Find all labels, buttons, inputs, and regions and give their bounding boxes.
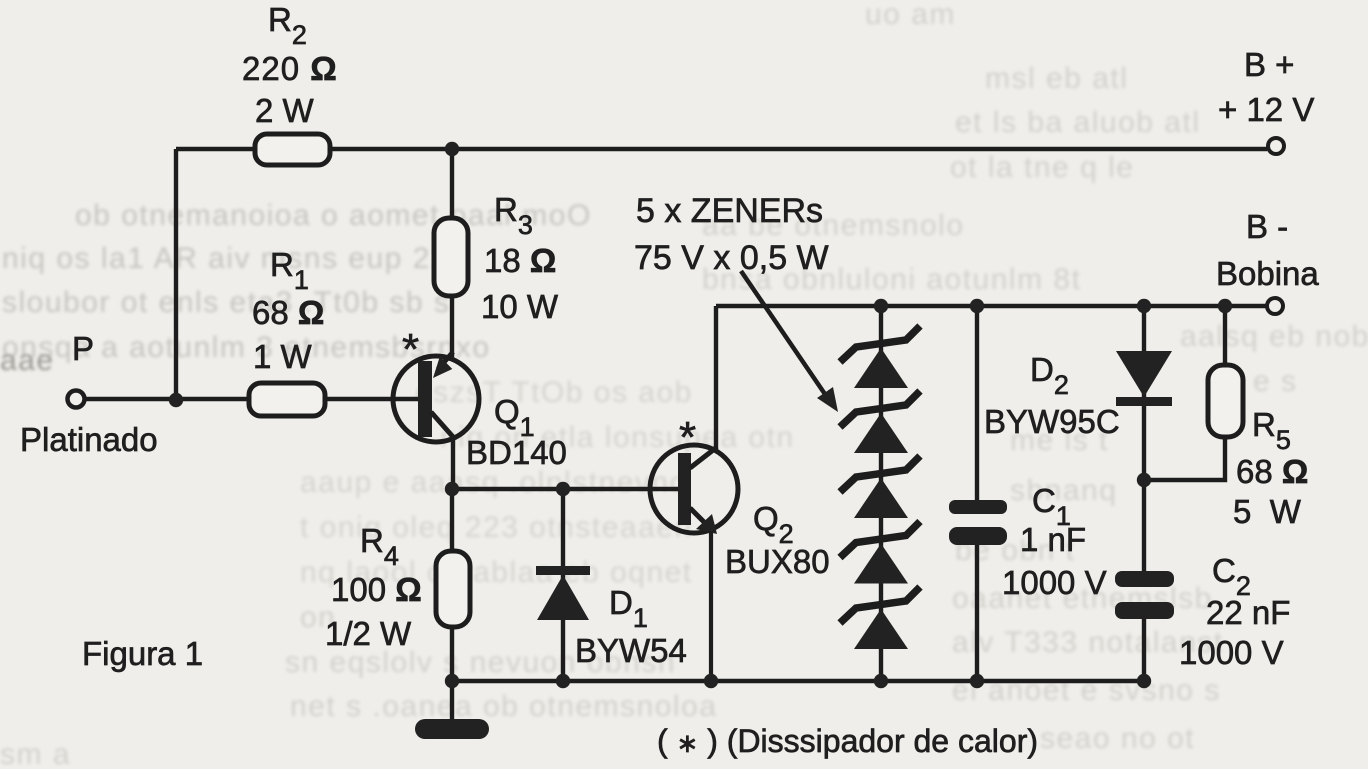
svg-text:aae: aae bbox=[0, 344, 55, 377]
zener pointer arrow bbox=[741, 271, 838, 412]
wire Q1 collector bbox=[451, 436, 455, 489]
junction D2-R5 node bbox=[1137, 473, 1151, 487]
resistor R3 bbox=[434, 218, 468, 296]
wire top (+12V rail) bbox=[176, 147, 1267, 151]
zener Z2 bbox=[840, 391, 920, 453]
svg-text:+ 12 V: + 12 V bbox=[1218, 91, 1314, 128]
capacitor C1 bbox=[949, 500, 1007, 545]
svg-text:net s .oanea ob otnemsnoloa: net s .oanea ob otnemsnoloa bbox=[290, 690, 717, 723]
terminal B+ bbox=[1268, 138, 1284, 154]
resistor R1 bbox=[249, 383, 325, 416]
svg-text:68 Ω: 68 Ω bbox=[252, 294, 324, 331]
junction D2 top node bbox=[1137, 299, 1151, 313]
diode D1 bbox=[536, 566, 590, 620]
svg-text:BYW54: BYW54 bbox=[575, 632, 687, 669]
svg-text:Figura 1: Figura 1 bbox=[82, 635, 203, 672]
svg-text:2 W: 2 W bbox=[255, 92, 315, 129]
svg-text:1000 V: 1000 V bbox=[1179, 634, 1284, 671]
junction R4 bottom node bbox=[445, 674, 459, 688]
junction zener bottom node bbox=[874, 674, 888, 688]
wire left vertical bbox=[174, 149, 178, 400]
wire C1 branch bbox=[975, 306, 979, 681]
transistor Q2 bbox=[650, 445, 738, 681]
wire D1 branch bbox=[561, 489, 565, 681]
svg-text:Platinado: Platinado bbox=[20, 421, 158, 458]
resistor R5 bbox=[1208, 365, 1243, 437]
svg-text:niq os la1 AR aiv msns eup 223: niq os la1 AR aiv msns eup 223 bbox=[2, 242, 467, 275]
zener Z3 bbox=[840, 456, 920, 518]
wire B- rail bbox=[716, 304, 1266, 308]
svg-text:Bobina: Bobina bbox=[1216, 255, 1319, 292]
svg-text:BD140: BD140 bbox=[466, 434, 567, 471]
svg-text:*: * bbox=[402, 325, 419, 374]
resistor R2 bbox=[255, 134, 330, 165]
wire Q2 collector riser bbox=[714, 306, 718, 449]
svg-text:220 Ω: 220 Ω bbox=[242, 50, 338, 87]
junction P node bbox=[169, 393, 183, 407]
svg-text:18 Ω: 18 Ω bbox=[484, 242, 556, 279]
junction Q1 collector node bbox=[445, 482, 459, 496]
svg-text:1000 V: 1000 V bbox=[1002, 564, 1107, 601]
svg-text:et ls ba aluob atl: et ls ba aluob atl bbox=[955, 106, 1200, 139]
wire P to Q1 base bbox=[86, 397, 420, 401]
svg-text:sm a: sm a bbox=[0, 738, 71, 769]
wire zener branch bbox=[879, 306, 883, 681]
zener Z4 bbox=[840, 522, 920, 584]
transistor Q1 bbox=[393, 352, 479, 442]
junction R5 top node bbox=[1218, 299, 1232, 313]
svg-text:msl eb atl: msl eb atl bbox=[985, 62, 1128, 95]
capacitor C2 bbox=[1115, 571, 1174, 619]
svg-text:BYW95C: BYW95C bbox=[984, 403, 1120, 440]
svg-text:aalsq eb nob: aalsq eb nob bbox=[1180, 320, 1368, 353]
wire R5 branch bbox=[1144, 306, 1225, 480]
svg-text:5 x ZENERs: 5 x ZENERs bbox=[636, 192, 823, 230]
diode D2 bbox=[1116, 351, 1172, 406]
svg-text:1 W: 1 W bbox=[253, 338, 313, 375]
junction D1 top node bbox=[556, 482, 570, 496]
wire R4 branch bbox=[450, 489, 454, 681]
svg-text:68 Ω: 68 Ω bbox=[1236, 453, 1308, 490]
resistor R4 bbox=[436, 551, 470, 627]
junction zener top node bbox=[874, 299, 888, 313]
terminal P bbox=[68, 391, 85, 408]
zener Z1 bbox=[840, 326, 920, 388]
svg-text:5 W: 5 W bbox=[1233, 493, 1302, 530]
svg-text:*: * bbox=[679, 413, 696, 462]
junction R2-R3 node bbox=[445, 142, 459, 156]
wire ground stub bbox=[450, 681, 454, 721]
junction C1 top node bbox=[970, 299, 984, 313]
junction Q2 emitter node bbox=[704, 674, 718, 688]
junction D1 bottom node bbox=[556, 674, 570, 688]
svg-text:e s: e s bbox=[1253, 365, 1298, 398]
svg-text:P: P bbox=[72, 330, 94, 367]
svg-text:100 Ω: 100 Ω bbox=[331, 571, 422, 608]
svg-text:eszsT TtOb os aob: eszsT TtOb os aob bbox=[415, 376, 693, 409]
svg-text:1/2 W: 1/2 W bbox=[325, 615, 412, 652]
svg-text:75 V x 0,5 W: 75 V x 0,5 W bbox=[634, 239, 829, 277]
svg-text:ot la tne q le: ot la tne q le bbox=[950, 151, 1134, 184]
wire mid node to Q2 base bbox=[452, 487, 679, 491]
junction C2 bottom node bbox=[1137, 674, 1151, 688]
svg-text:22 nF: 22 nF bbox=[1206, 594, 1290, 631]
wire bottom rail bbox=[452, 679, 1144, 683]
svg-text:( ∗ ) (Disssipador de calor): ( ∗ ) (Disssipador de calor) bbox=[657, 723, 1038, 759]
svg-text:B +: B + bbox=[1244, 46, 1294, 83]
svg-text:10 W: 10 W bbox=[481, 288, 559, 325]
svg-text:t oniq oleq 223 otnsteaaen: t oniq oleq 223 otnsteaaen bbox=[300, 511, 693, 544]
wire D2 C2 branch bbox=[1142, 306, 1146, 681]
junction C1 bottom node bbox=[970, 674, 984, 688]
terminal B- bbox=[1267, 298, 1283, 314]
wire R3 branch bbox=[450, 149, 454, 361]
svg-text:seao no ot: seao no ot bbox=[1040, 722, 1195, 755]
svg-text:uo am: uo am bbox=[865, 0, 956, 31]
svg-text:1 nF: 1 nF bbox=[1020, 521, 1086, 558]
ground bbox=[415, 719, 489, 739]
svg-text:sloubor ot enls eta3 .Tt0b sb: sloubor ot enls eta3 .Tt0b sb s bbox=[2, 286, 450, 319]
svg-text:B -: B - bbox=[1246, 208, 1288, 245]
zener Z5 bbox=[840, 587, 920, 649]
svg-text:BUX80: BUX80 bbox=[725, 543, 830, 580]
